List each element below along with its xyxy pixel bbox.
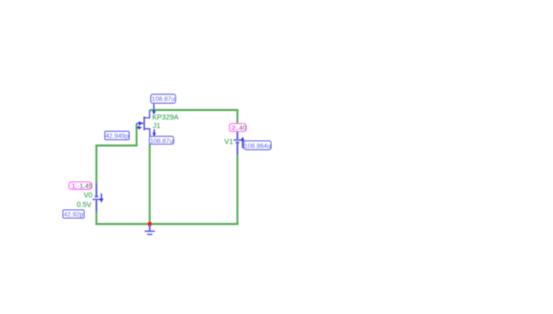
svg-text:108.864u: 108.864u	[244, 143, 271, 150]
wire gate vertical	[136, 124, 138, 146]
wire gate horizontal	[95, 145, 137, 147]
value box V0 current 42.92p	[63, 210, 84, 219]
wire left vertical upper (node 1 to V0)	[95, 145, 97, 185]
node 1 voltage box 1:-1.45	[69, 182, 93, 190]
svg-text:V1: V1	[224, 137, 233, 146]
svg-text:108.87u: 108.87u	[150, 138, 174, 145]
svg-text:1:-1.45: 1:-1.45	[72, 183, 93, 190]
wire bottom rail	[95, 223, 238, 225]
value box V1 current 108.864u	[244, 141, 271, 150]
value box source current 108.87u	[149, 136, 173, 145]
svg-text:V0: V0	[84, 191, 93, 200]
transistor J1 (JFET KP329A)	[136, 110, 149, 137]
current arrow V0 (downward)	[100, 193, 104, 202]
current arrow drain (into J1)	[152, 104, 156, 115]
wire left vertical lower (V0 to rail)	[95, 211, 97, 225]
current arrow source (out of J1)	[152, 129, 156, 136]
node 2 voltage box 2:.40	[230, 124, 247, 133]
svg-text:42.92p: 42.92p	[64, 212, 84, 219]
battery V0	[93, 184, 103, 212]
svg-text:0.5V: 0.5V	[77, 200, 92, 209]
svg-text:J1: J1	[153, 121, 161, 130]
svg-text:42.949p: 42.949p	[105, 133, 129, 140]
battery V1	[234, 131, 242, 155]
wire middle vertical (source of J1 to rail)	[149, 144, 151, 225]
value box drain current 108.87u	[151, 94, 176, 103]
wire right lower (V1 bottom to rail)	[236, 155, 238, 226]
wire right upper (into node 2 box)	[236, 109, 238, 124]
current arrow gate (out of J1, leftward)	[136, 126, 141, 130]
svg-text:2:.40: 2:.40	[232, 125, 247, 132]
value box gate current 42.949p	[105, 131, 129, 140]
node junction dot	[147, 222, 152, 227]
ground	[145, 225, 155, 234]
wire top (drain of J1 to V1 top)	[150, 109, 238, 111]
svg-text:108.87u: 108.87u	[152, 96, 176, 103]
current arrow V1 (upward)	[241, 137, 245, 148]
